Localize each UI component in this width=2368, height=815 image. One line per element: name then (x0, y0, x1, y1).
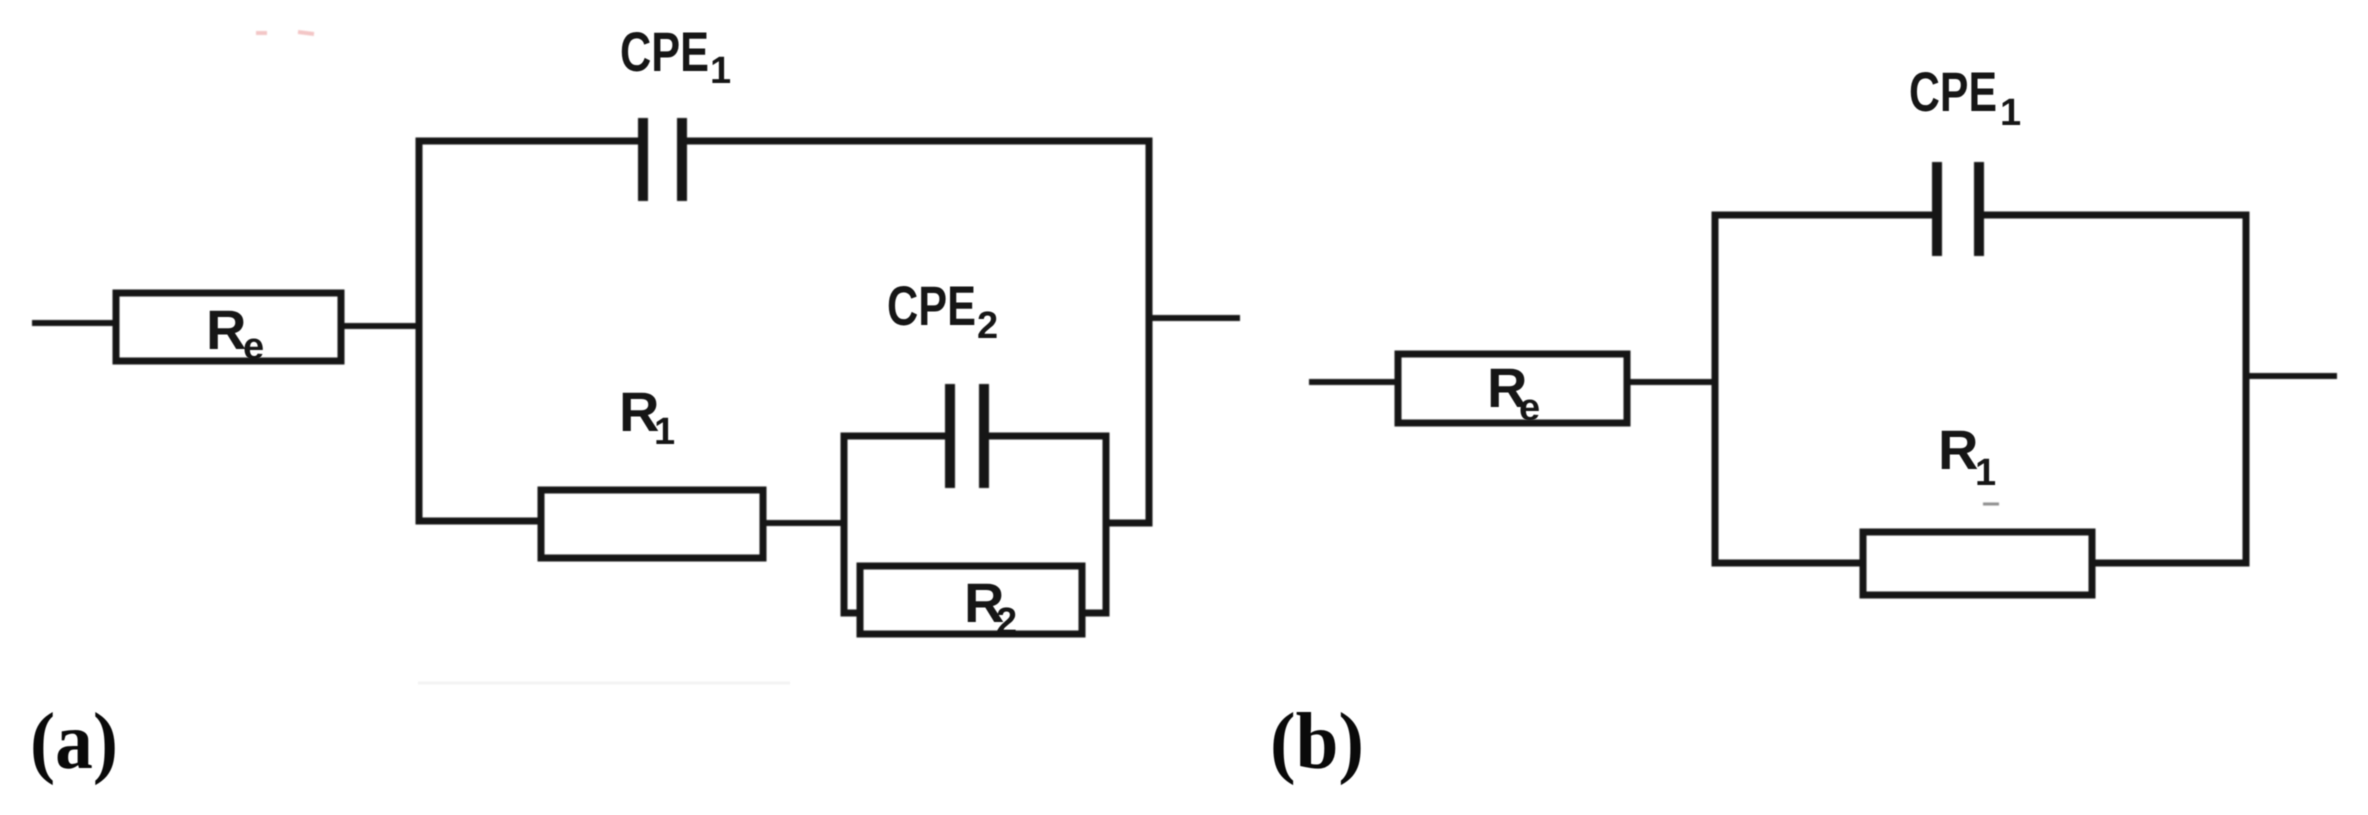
svg-text:1: 1 (2000, 92, 2021, 134)
svg-text:2: 2 (996, 601, 1017, 643)
svg-text:e: e (243, 326, 264, 368)
svg-text:(a): (a) (30, 698, 118, 786)
svg-text:e: e (1519, 387, 1540, 429)
svg-text:R: R (206, 298, 246, 361)
svg-text:R: R (1938, 418, 1978, 481)
svg-text:1: 1 (710, 50, 731, 92)
svg-text:(b): (b) (1270, 698, 1364, 786)
svg-text:1: 1 (654, 411, 675, 453)
svg-text:CPE: CPE (620, 20, 709, 83)
svg-text:1: 1 (1975, 452, 1996, 494)
svg-text:CPE: CPE (887, 274, 976, 337)
svg-text:2: 2 (977, 305, 998, 347)
svg-text:CPE: CPE (1909, 60, 1997, 123)
